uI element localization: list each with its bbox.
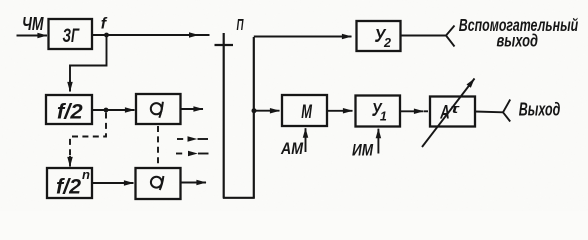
node: junction dot on П right line feeding М [252,108,257,113]
wire: dashed arrow 2 toward П [176,153,186,155]
label φ top [151,102,163,118]
svg-text:n: n [82,167,90,182]
wire: φ top output arrow toward П [181,108,204,110]
svg-text:ЗГ: ЗГ [63,25,80,47]
wire: dashed link from f/2 output down to f/2^n [70,113,106,158]
wire: ЧМ input arrow into ЗГ [17,35,48,37]
block П (switch) left side line [223,33,225,198]
adjustment diagonal arrow across Ат [422,79,475,148]
wire: f/2 output into φ top [92,109,135,111]
block f/2 (divider) [46,95,92,124]
block Ат (attenuator) [430,97,475,127]
wire: dashed arrow 1 toward П [177,138,187,140]
wire: ЗГ output toward П bus [92,34,210,36]
block f/2^n (divider chain) [47,168,92,198]
node: junction dot on f/2 output [104,108,109,113]
wire: У1 output to Ат [400,110,424,112]
svg-text:АМ: АМ [280,139,304,158]
wire: АМ input arrow into М [305,128,307,152]
wire: П top output to У2 [254,36,352,38]
svg-text:М: М [301,102,312,123]
wire: f/2^n output into φ bottom [92,182,134,184]
block П bottom line [223,197,255,199]
block У2 (auxiliary amplifier) [357,21,401,51]
svg-text:τ: τ [451,101,460,116]
wire: П to М [254,110,280,112]
output terminal fork (main output) [503,100,510,122]
wire: from node f down-left into f/2 [70,35,107,92]
svg-text:f/2: f/2 [57,100,83,123]
label φ bottom [151,176,164,190]
block φ top (phase shifter) [136,94,181,124]
svg-text:П: П [237,17,244,34]
svg-text:1: 1 [380,109,387,123]
wire: Ат output line [475,111,503,114]
svg-text:ИМ: ИМ [352,140,374,159]
svg-text:ЧМ: ЧМ [22,14,44,34]
svg-text:2: 2 [383,36,391,50]
block У1 (amplifier) [356,96,401,127]
wire: М output to У1 [327,110,353,112]
block ЗГ (master oscillator) [49,19,93,49]
svg-text:выход: выход [497,31,539,51]
tick mark crossing П left line [215,44,234,46]
svg-text:Выход: Выход [519,100,561,120]
wire: ИМ input arrow into У1 [377,129,379,154]
wire: dashed link φ top to φ bottom [157,126,159,166]
block φ bottom (phase shifter) [136,168,181,199]
wire: φ bottom output arrow toward П [181,182,207,184]
wire: У2 output line [401,35,447,37]
output terminal fork (auxiliary output) [446,26,455,47]
svg-text:f/2: f/2 [56,176,81,199]
block П right side line [253,37,255,198]
block М (modulator) [282,95,327,126]
svg-text:А: А [440,103,450,124]
node f junction dot [104,33,109,38]
